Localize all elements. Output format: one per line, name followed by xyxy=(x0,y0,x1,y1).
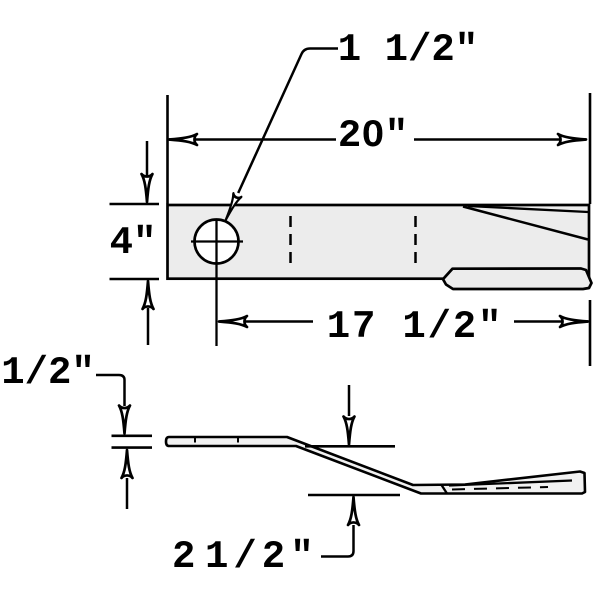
blade side profile xyxy=(166,437,585,494)
dimension line 17 1/2 inch left segment xyxy=(222,320,313,323)
4 inch upper arrow line xyxy=(146,141,149,176)
svg-text:17 1/2": 17 1/2" xyxy=(327,305,503,349)
bevel middle line (side view) xyxy=(449,481,572,486)
arrow left (17 1/2 inch) xyxy=(219,316,247,327)
2 1/2 inch up arrowhead xyxy=(348,497,359,525)
4 inch extension line top xyxy=(110,203,160,206)
blade body rectangle (top view) xyxy=(168,205,590,279)
upper reference line (2 1/2 inch) xyxy=(305,445,395,448)
arrow left (20 inch) xyxy=(169,134,197,145)
svg-text:1 1/2": 1 1/2" xyxy=(338,28,478,72)
4 inch lower arrowhead (up) xyxy=(143,281,154,309)
leader line 1 1/2 inch xyxy=(238,49,338,194)
center hole xyxy=(195,220,239,264)
1/2 inch extension line top xyxy=(112,434,153,437)
surface tick 1 xyxy=(194,438,196,443)
1/2 inch leader with corner xyxy=(96,375,125,406)
2 1/2 inch up arrow line with corner xyxy=(321,525,354,557)
extension line left (20 inch dim) xyxy=(166,95,169,204)
bend line diagonal (top view) xyxy=(463,207,588,240)
dimension line 20 inch left segment xyxy=(169,138,336,141)
1/2 inch extension line bottom xyxy=(112,446,153,449)
extension line right upper (20 inch dim) xyxy=(589,93,592,204)
hidden bevel dashes (side view) xyxy=(452,487,548,490)
svg-text:1/2": 1/2" xyxy=(205,535,319,579)
hole centerline vertical xyxy=(215,220,217,347)
dimension line 20 inch right segment xyxy=(414,138,586,141)
lower reference line (2 1/2 inch) xyxy=(308,494,400,497)
bevel start tick (side view) xyxy=(442,485,448,494)
dimension line 17 1/2 inch right segment xyxy=(514,320,588,323)
svg-text:1/2": 1/2" xyxy=(1,351,95,395)
2 1/2 inch down arrow line xyxy=(348,385,351,416)
extension line right lower (17 1/2 inch dim) xyxy=(589,300,592,366)
hidden bend line 2 (dashed) xyxy=(414,216,417,264)
zero counter patch xyxy=(369,124,377,139)
hidden bend line 1 (dashed) xyxy=(289,216,292,264)
2 1/2 inch down arrowhead xyxy=(344,417,355,445)
4 inch extension line bottom xyxy=(110,278,160,281)
1/2 inch up arrow line xyxy=(126,478,129,509)
1/2 inch down arrowhead xyxy=(119,406,130,434)
upturned tail outline (top view) xyxy=(443,269,592,290)
svg-text:2: 2 xyxy=(172,535,195,579)
leader arrowhead (1 1/2 inch) xyxy=(222,193,242,222)
4 inch lower arrow line xyxy=(147,308,150,345)
hole crosshair horizontal xyxy=(191,240,243,242)
arrow right (20 inch) xyxy=(558,134,586,145)
svg-text:4": 4" xyxy=(110,221,157,265)
cutting edge bevel line (top view) xyxy=(468,206,588,212)
4 inch upper arrowhead (down) xyxy=(142,174,153,202)
surface tick 2 xyxy=(237,438,239,443)
1/2 inch up arrowhead xyxy=(122,450,133,478)
arrow right (17 1/2 inch) xyxy=(560,316,588,327)
